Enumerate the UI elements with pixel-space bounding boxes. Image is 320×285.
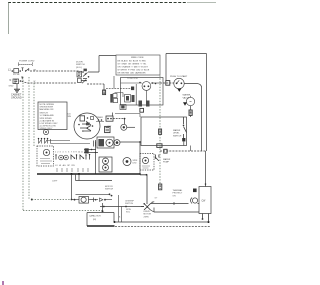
console coils (139, 101, 143, 107)
pins bottom (203, 214, 209, 223)
svg-text:SPIN: SPIN (133, 160, 138, 162)
svg-text:TO MOTOR: TO MOTOR (127, 78, 138, 80)
door switch S1 (77, 71, 82, 77)
push-to-start switch (174, 78, 184, 88)
svg-text:BR: BROWN LAV: LAVENDER: BR: BROWN LAV: LAVENDER (118, 72, 147, 75)
terminal blocks (113, 94, 117, 98)
lid switch bubble (43, 129, 48, 134)
svg-text:GY: GRAY GR: GREEN Y: YEL: GY: GRAY GR: GREEN Y: YEL (118, 63, 148, 66)
contacts inside lid circle (80, 116, 85, 121)
wire into box from console (115, 114, 140, 118)
wires to drive motor box (151, 203, 200, 205)
svg-text:THERMAL: THERMAL (173, 189, 184, 192)
wire door switch lower (87, 83, 104, 85)
lower terminal cluster (120, 105, 126, 110)
svg-text:SWITCH: SWITCH (173, 135, 182, 137)
cabinet boundary dashed vertical 2 (28, 77, 30, 200)
pin top (205, 184, 207, 187)
arrow below push-to-start (177, 89, 181, 92)
wire valve down (190, 106, 192, 110)
contact block box (speed) (99, 157, 112, 172)
wire y206.5 (100, 206, 144, 208)
wire to ground (16, 84, 18, 89)
row B coil (105, 126, 110, 132)
arrow water valve (183, 102, 187, 106)
connector BK (103, 90, 106, 95)
svg-text:2SPD: 2SPD (144, 216, 150, 218)
unbalance switch X (144, 204, 151, 211)
legend box WIRE CODE (116, 55, 160, 75)
connector on dashed bottom (164, 149, 167, 153)
wire bottom bus (114, 221, 116, 223)
svg-text:LED: LED (133, 163, 138, 165)
svg-text:PUMP: PUMP (163, 162, 170, 164)
contact block A (106, 116, 113, 121)
connector T1 (140, 108, 144, 112)
connector on box bottom (157, 144, 162, 148)
svg-text:GND: GND (9, 86, 14, 88)
connector BK2 (166, 81, 170, 86)
svg-text:OR: ORANGE T: TAN V: VIOLET: OR: ORANGE T: TAN V: VIOLET (118, 66, 149, 69)
water valve solenoid (186, 97, 194, 105)
console dashed line (31, 199, 33, 201)
svg-text:PROTECT: PROTECT (173, 193, 184, 195)
svg-text:OR: OR (173, 195, 177, 197)
water pump dashed box (140, 154, 154, 171)
relay coil (131, 87, 134, 91)
svg-text:WATER: WATER (163, 158, 171, 161)
svg-text:DRIVE: DRIVE (144, 211, 151, 213)
wire N dashed to door switch (22, 81, 77, 83)
motor start lamp (123, 158, 131, 166)
wire L1 dashed to door switch (30, 70, 79, 72)
dashed boundary vertical through pump (159, 76, 161, 185)
row B lamp (121, 124, 127, 130)
water level switch box (141, 117, 187, 146)
cabinet boundary dashed vertical 3 (33, 83, 35, 147)
motor components left of box (193, 189, 197, 193)
console switch box (121, 78, 164, 106)
left border stub (8, 3, 10, 35)
svg-text:FU SE: FU SE (13, 74, 20, 76)
svg-text:MOTOR: MOTOR (105, 186, 113, 188)
ground (14, 89, 20, 92)
top border faint right part (187, 2, 216, 4)
timer lower ticks (57, 168, 88, 172)
start winding bubble (79, 197, 89, 204)
wire bus corner down right (140, 175, 147, 204)
svg-text:1-2 WASH AND: 1-2 WASH AND (40, 114, 55, 117)
cabinet boundary dashed vertical 1 (22, 77, 24, 211)
pump switch (156, 155, 159, 161)
wire down from row C junction (139, 142, 141, 174)
svg-text:CAPACITOR: CAPACITOR (89, 215, 101, 218)
wire right side down (205, 151, 207, 184)
wire row B (127, 126, 135, 128)
svg-text:W: WHITE P: PINK LBU: LT BLU: W: WHITE P: PINK LBU: LT BLUE (118, 70, 150, 72)
tick marks under lid circle (94, 141, 96, 147)
wire pair to bottom bus (118, 195, 121, 222)
plug P1 (13, 79, 19, 84)
row C box with motor (97, 137, 114, 148)
drive motor box (199, 187, 211, 214)
motor assembly wires (76, 174, 80, 181)
bracket under power cord label (19, 63, 33, 67)
svg-text:1 2 3 4 5 6 7 8 9: 1 2 3 4 5 6 7 8 9 10 11 (55, 152, 84, 154)
timer contacts row components (59, 155, 64, 160)
svg-text:BK: BLACK BU: BLUE R: RED: BK: BLACK BU: BLUE R: RED (118, 60, 147, 63)
svg-text:SWITCH: SWITCH (125, 203, 134, 205)
start row marks (90, 198, 94, 202)
wire door switch up to console (88, 56, 116, 73)
console box top-right (166, 54, 207, 152)
svg-text:(N.O.): (N.O.) (76, 67, 82, 69)
wire into push-to-start (160, 82, 174, 84)
circuit schematic: washer wiring diagram (0, 0, 218, 285)
wire from push-to-start to right (184, 84, 201, 152)
wire inside console at y83 (121, 82, 143, 84)
water level switch contacts (184, 117, 187, 138)
wire row A (113, 118, 125, 120)
svg-text:MACHINE OFF: MACHINE OFF (40, 108, 55, 111)
wires from cam switches (51, 143, 91, 145)
svg-text:SW: SW (68, 116, 71, 118)
svg-text:LO HI AG SP RN: LO HI AG SP RN (55, 164, 75, 167)
svg-text:CENTRIF: CENTRIF (125, 201, 135, 203)
svg-text:TIMER: TIMER (97, 117, 104, 119)
svg-text:SPIN: SPIN (126, 209, 131, 211)
top dashed border (8, 2, 187, 4)
pump motor (142, 157, 148, 163)
wire row C to right (120, 141, 140, 143)
wire valve to water level box (190, 115, 192, 117)
svg-text:WATER: WATER (183, 94, 191, 97)
timer motor TM (43, 149, 49, 155)
door switch contact block (84, 69, 87, 72)
left wire stubs (84, 150, 98, 153)
note box (38, 102, 67, 130)
lid switch circle (74, 113, 100, 139)
svg-text:WATER: WATER (173, 129, 181, 132)
wire down to dashed (102, 203, 104, 211)
start bubble in console (142, 82, 151, 91)
svg-text:MOTOR: MOTOR (144, 214, 152, 216)
vertical to start row (71, 174, 73, 200)
main bus (37, 173, 140, 175)
vertical drop in console (114, 76, 146, 105)
svg-text:2-3 AGITATE IN: 2-3 AGITATE IN (40, 119, 55, 122)
svg-text:(M): (M) (93, 219, 96, 221)
fuse F1 (12, 70, 14, 72)
svg-text:LID: LID (68, 114, 72, 116)
timer cam switches (38, 138, 51, 144)
connector BU on dashed boundary (159, 184, 162, 190)
switch contact on L1 line (26, 68, 29, 71)
lower console box (87, 213, 114, 227)
timer motor dashed box (37, 146, 54, 166)
console contacts right (152, 82, 154, 84)
wire from box bottom (112, 113, 114, 117)
dashed wire to relay (106, 87, 131, 89)
svg-text:SWITCH: SWITCH (105, 189, 114, 191)
row B arrow (87, 126, 92, 131)
svg-text:1/2HP: 1/2HP (52, 181, 58, 183)
wire lid circle to bus (95, 140, 97, 174)
lamp outside row C (114, 140, 120, 146)
connector on dashed boundary (159, 129, 162, 134)
connector V1 (189, 110, 192, 115)
svg-text:GROUND: GROUND (11, 97, 22, 100)
purple scan artifact (2, 281, 4, 285)
console box bottom dashed (160, 150, 207, 152)
svg-text:N: N (10, 79, 12, 82)
wire stub down (103, 84, 105, 90)
pump cluster bottom diag (141, 202, 154, 212)
cabinet boundary dashed bottom (23, 210, 102, 212)
svg-text:POWER CORD: POWER CORD (19, 61, 35, 63)
bottom dashed line (115, 226, 211, 228)
connector blob lower-left of circle (85, 148, 89, 153)
svg-text:WIRE CODE: WIRE CODE (131, 57, 144, 59)
svg-text:LEVEL: LEVEL (173, 133, 180, 135)
wire y92.5 (115, 93, 124, 98)
svg-text:PUSH TO START: PUSH TO START (170, 75, 188, 78)
